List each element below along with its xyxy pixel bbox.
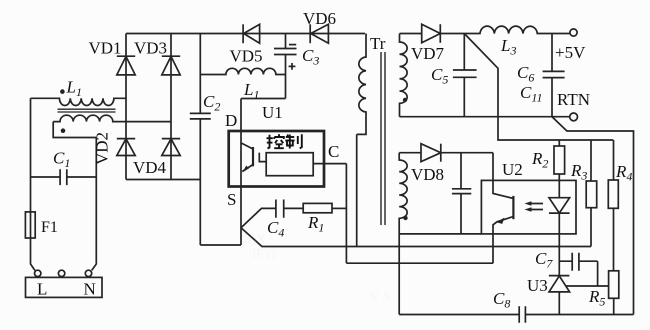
- svg-text:+5V: +5V: [555, 43, 586, 62]
- svg-text:VD2: VD2: [92, 132, 111, 165]
- svg-text:C: C: [328, 142, 339, 161]
- svg-text:VD6: VD6: [303, 9, 336, 28]
- svg-text:U1: U1: [262, 103, 283, 122]
- svg-text:()X: ()X: [248, 231, 267, 246]
- svg-text:S: S: [227, 190, 236, 209]
- svg-text:VD8: VD8: [411, 165, 444, 184]
- svg-text:Tr: Tr: [370, 34, 386, 53]
- svg-text:U3: U3: [527, 276, 548, 295]
- svg-text:V A: V A: [370, 288, 392, 303]
- svg-text:RTN: RTN: [557, 90, 590, 109]
- svg-text:VD3: VD3: [134, 39, 167, 58]
- svg-text:L: L: [37, 280, 47, 299]
- svg-text:VD5: VD5: [230, 47, 263, 66]
- svg-text:VD7: VD7: [411, 44, 445, 63]
- svg-text:VD4: VD4: [133, 158, 167, 177]
- svg-text:D: D: [225, 111, 237, 130]
- svg-text:N: N: [84, 280, 96, 299]
- svg-text:U2: U2: [502, 160, 523, 179]
- svg-text:F1: F1: [41, 219, 58, 236]
- svg-text:VD1: VD1: [89, 39, 122, 58]
- svg-text:IF (): IF (): [252, 246, 275, 261]
